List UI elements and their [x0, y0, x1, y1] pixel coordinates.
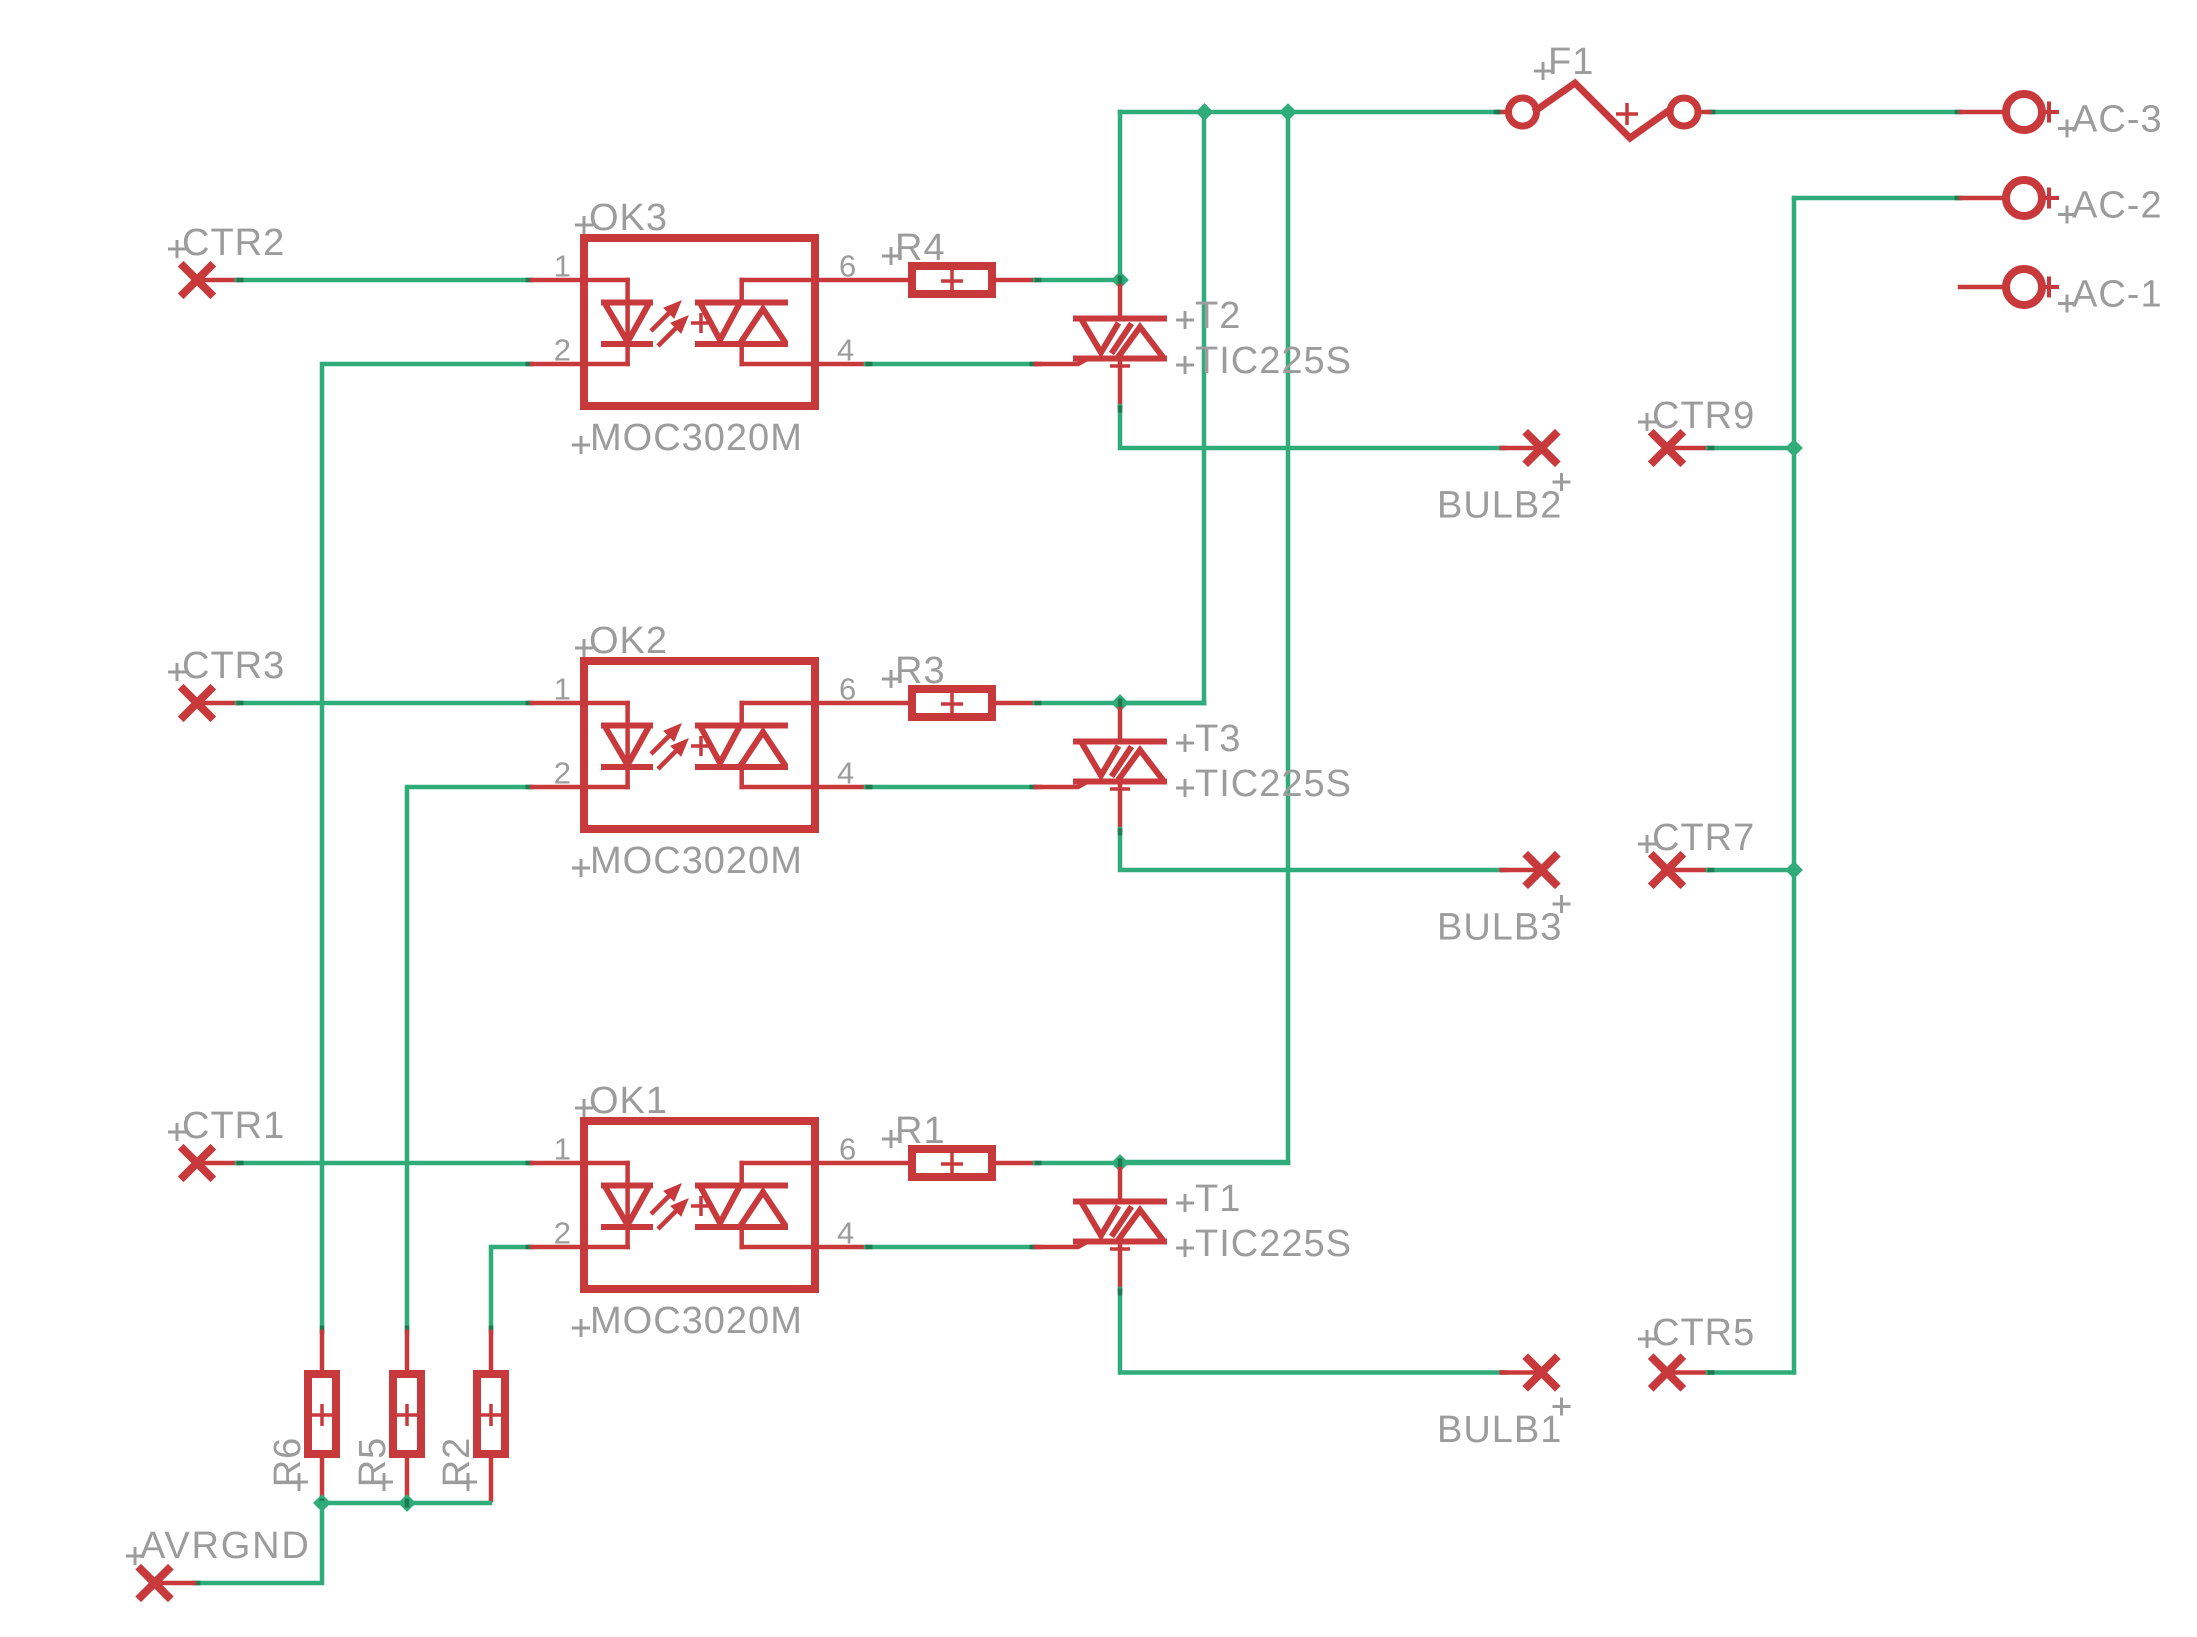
- junction at triac T1 gate-drive node: [1111, 1154, 1129, 1172]
- svg-text:MOC3020M: MOC3020M: [590, 417, 803, 459]
- optocoupler OK3 MOC3020M: [532, 238, 815, 406]
- node CTR7: [1654, 857, 1681, 884]
- label R5: [375, 1473, 393, 1491]
- svg-text:T2: T2: [1195, 295, 1241, 337]
- node CTR1: [184, 1150, 211, 1177]
- label OK2: [575, 639, 593, 657]
- label BULB3: [1553, 895, 1571, 913]
- svg-text:AC-1: AC-1: [2072, 274, 2163, 316]
- svg-text:F1: F1: [1548, 41, 1594, 83]
- label OK3: [575, 216, 593, 234]
- svg-text:CTR9: CTR9: [1652, 395, 1755, 437]
- svg-text:CTR5: CTR5: [1652, 1312, 1755, 1354]
- svg-text:AVRGND: AVRGND: [140, 1525, 311, 1567]
- node BULB2: [1502, 446, 1542, 451]
- svg-text:R5: R5: [352, 1437, 394, 1488]
- wire pin 4 to triac T1 gate: [816, 1245, 866, 1250]
- label T3: [1176, 734, 1194, 752]
- label R3: [882, 670, 900, 688]
- connector pad AC-3: [2006, 94, 2042, 130]
- triac T3 TIC225S: [1036, 709, 1164, 829]
- wire AC-1 pad stub (unconnected): [1960, 285, 2002, 290]
- node BULB1: [1502, 1370, 1542, 1375]
- wire resistor R4 output to junction: [996, 278, 1035, 283]
- label F1: [1534, 62, 1552, 80]
- svg-text:1: 1: [554, 249, 572, 284]
- node CTR3: [184, 690, 211, 717]
- junction right bus at CTR9: [1785, 439, 1803, 457]
- label BULB1: [1553, 1398, 1571, 1416]
- resistor R3: [912, 689, 992, 717]
- svg-text:1: 1: [554, 1132, 572, 1167]
- wire resistor R3 output to junction: [996, 701, 1035, 706]
- wire AC-3 pad stub: [1961, 110, 2002, 115]
- wire vertical from top bus down to OK1 output row: [1286, 112, 1291, 1162]
- svg-text:TIC225S: TIC225S: [1195, 340, 1352, 382]
- svg-text:CTR3: CTR3: [182, 645, 285, 687]
- svg-text:OK3: OK3: [589, 197, 668, 239]
- junction top bus / riser to OK2 row: [1196, 103, 1214, 121]
- label MOC3020M: [572, 859, 590, 877]
- label MOC3020M: [572, 436, 590, 454]
- wire triac T2 MT1 down to BULB2 row: [1120, 406, 1501, 448]
- svg-text:TIC225S: TIC225S: [1195, 763, 1352, 805]
- wire pin 4 to triac T3 gate: [816, 785, 866, 790]
- wire AC-2 horizontal run: [1794, 196, 1961, 201]
- svg-text:R3: R3: [895, 650, 946, 692]
- svg-text:CTR1: CTR1: [182, 1105, 285, 1147]
- wire triac T1 MT1 down to BULB1 row: [1120, 1289, 1501, 1373]
- wire top AC bus from corner above T2 to fuse: [1120, 110, 1498, 115]
- label MOC3020M: [572, 1319, 590, 1337]
- junction at triac T3 gate-drive node: [1111, 694, 1129, 712]
- resistor R4: [912, 266, 992, 294]
- junction right bus at CTR7: [1785, 861, 1803, 879]
- fuse F1: [1498, 110, 1509, 115]
- svg-text:2: 2: [554, 1216, 572, 1251]
- svg-text:R6: R6: [267, 1437, 309, 1488]
- label AC-3: [2058, 120, 2076, 138]
- label TIC225S: [1176, 1239, 1194, 1257]
- svg-text:AC-3: AC-3: [2072, 99, 2163, 141]
- wire horizontal R1 output row to vertical riser: [1120, 1160, 1288, 1165]
- svg-text:T1: T1: [1195, 1178, 1241, 1220]
- wire pin 6 stub: [816, 701, 908, 706]
- wire fuse output to AC-3 pad: [1709, 110, 1961, 115]
- wire CTR1 to OK1 pin 1: [237, 1161, 532, 1166]
- wire pin 6 stub: [816, 278, 908, 283]
- svg-text:R2: R2: [436, 1437, 478, 1488]
- label AC-1: [2058, 295, 2076, 313]
- wire OK3 pin 2 to resistor R6: [322, 364, 532, 1332]
- label R6: [290, 1473, 308, 1491]
- wire pin 4 to triac T2 gate: [816, 362, 866, 367]
- wire triac T3 MT1 down to BULB3 row: [1120, 829, 1501, 870]
- optocoupler OK2 MOC3020M: [532, 661, 815, 829]
- label AVRGND: [126, 1547, 144, 1565]
- optocoupler OK1 MOC3020M: [532, 1121, 815, 1289]
- svg-text:BULB2: BULB2: [1437, 485, 1562, 527]
- svg-text:AC-2: AC-2: [2072, 185, 2163, 227]
- node CTR2: [184, 267, 211, 294]
- svg-text:TIC225S: TIC225S: [1195, 1223, 1352, 1265]
- triac T2 TIC225S: [1036, 286, 1164, 406]
- svg-text:2: 2: [554, 756, 572, 791]
- junction R5 / ground bus: [398, 1494, 416, 1512]
- wire vertical from top bus down to OK2 output row: [1202, 112, 1207, 703]
- label AC-2: [2058, 206, 2076, 224]
- svg-text:T3: T3: [1195, 718, 1241, 760]
- svg-text:BULB3: BULB3: [1437, 907, 1562, 949]
- wire horizontal R3 output row to vertical riser: [1120, 701, 1204, 706]
- triac T1 TIC225S: [1036, 1169, 1164, 1289]
- svg-text:R1: R1: [895, 1110, 946, 1152]
- label TIC225S: [1176, 779, 1194, 797]
- wire AC-2 right-side vertical bus: [1792, 198, 1797, 1373]
- label T1: [1176, 1194, 1194, 1212]
- svg-text:BULB1: BULB1: [1437, 1409, 1562, 1451]
- label R1: [882, 1130, 900, 1148]
- connector pad AC-2: [2006, 180, 2042, 216]
- wire OK1 pin 2 to resistor R2: [491, 1247, 532, 1332]
- resistor R5 (vertical): [405, 1332, 410, 1370]
- node CTR9: [1654, 435, 1681, 462]
- connector pad AC-1: [2006, 269, 2042, 305]
- wire resistor R1 output to junction: [996, 1161, 1035, 1166]
- junction at triac T2 gate-drive node: [1111, 271, 1129, 289]
- junction R6 / ground bus: [313, 1494, 331, 1512]
- node CTR5: [1654, 1359, 1681, 1386]
- svg-text:CTR7: CTR7: [1652, 817, 1755, 859]
- node BULB3: [1502, 868, 1542, 873]
- label BULB2: [1553, 473, 1571, 491]
- wire CTR5 to right bus: [1708, 1370, 1794, 1375]
- label R4: [882, 247, 900, 265]
- junction top bus / riser to OK1 row: [1279, 103, 1297, 121]
- wire AC-2 pad stub: [1961, 196, 2002, 201]
- svg-text:1: 1: [554, 672, 572, 707]
- resistor R1: [912, 1149, 992, 1177]
- wire CTR3 to OK2 pin 1: [237, 701, 532, 706]
- wire OK2 pin 2 to resistor R5: [407, 787, 532, 1332]
- label R2: [459, 1473, 477, 1491]
- wire AVRGND riser: [194, 1503, 322, 1583]
- resistor R6 (vertical): [320, 1332, 325, 1370]
- label TIC225S: [1176, 356, 1194, 374]
- wire vertical drop to R4/T2 junction: [1118, 112, 1123, 280]
- svg-text:MOC3020M: MOC3020M: [590, 840, 803, 882]
- wire CTR7 to right bus: [1708, 868, 1794, 873]
- label OK1: [575, 1099, 593, 1117]
- svg-text:OK1: OK1: [589, 1080, 668, 1122]
- wire ground bus under resistors: [322, 1501, 490, 1506]
- wire CTR9 to right bus: [1708, 446, 1794, 451]
- svg-text:2: 2: [554, 333, 572, 368]
- wire CTR2 to OK3 pin 1: [237, 278, 532, 283]
- svg-text:MOC3020M: MOC3020M: [590, 1300, 803, 1342]
- svg-text:R4: R4: [895, 227, 946, 269]
- node AVRGND: [141, 1570, 168, 1597]
- label T2: [1176, 311, 1194, 329]
- resistor R2 (vertical): [489, 1332, 494, 1370]
- svg-text:CTR2: CTR2: [182, 222, 285, 264]
- wire pin 6 stub: [816, 1161, 908, 1166]
- svg-text:OK2: OK2: [589, 620, 668, 662]
